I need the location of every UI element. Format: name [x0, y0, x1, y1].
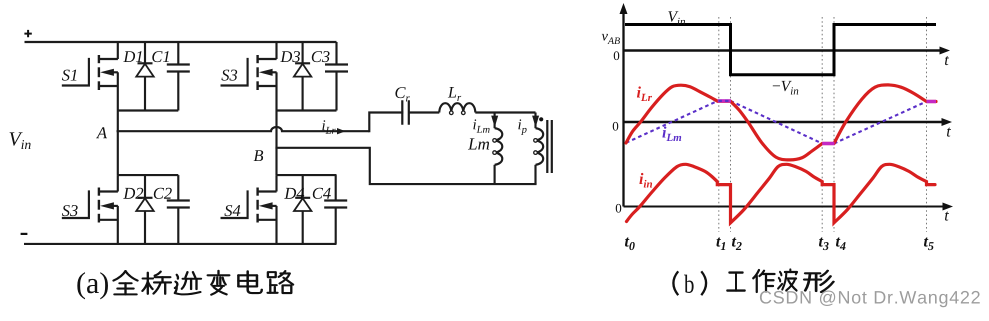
capacitor Cr	[402, 100, 409, 124]
caption (b) fullwidth left paren	[673, 271, 678, 295]
caption (a) char ni	[175, 272, 201, 294]
label D4	[284, 188, 304, 199]
wire into transformer primary	[534, 113, 536, 129]
transistor S3 bottom-left channel	[98, 188, 100, 223]
iLm flat segment t3-t4	[822, 142, 834, 145]
guide dashed line t2	[730, 17, 732, 232]
label t5	[924, 237, 934, 250]
bottom rail	[24, 243, 337, 245]
wire into Lm	[494, 113, 496, 129]
caption (b) char xing	[804, 271, 833, 292]
label S3 top	[221, 70, 237, 81]
label D3	[280, 51, 300, 62]
diode D3	[294, 42, 311, 111]
label C1	[152, 51, 169, 62]
label C4	[313, 188, 331, 199]
zero label axis3	[616, 204, 622, 213]
label ip	[518, 119, 526, 135]
dash overlay t1-t2	[719, 100, 731, 102]
label Lr	[448, 87, 461, 101]
label iLm	[662, 126, 681, 141]
caption (b) fullwidth right paren	[701, 271, 706, 295]
t label axis3	[945, 211, 949, 220]
minus Vin wave label	[773, 81, 799, 95]
node line bottom-left cell	[118, 174, 179, 176]
vertical axis	[620, 3, 628, 207]
iin wave	[627, 164, 936, 223]
iLm flat segment after t5	[927, 100, 937, 103]
node B label	[254, 150, 264, 161]
guide dashed line t1	[718, 17, 720, 232]
caption (a) char qiao	[142, 272, 171, 294]
transistor S1 drain stub	[99, 58, 118, 60]
caption (b) letter b	[684, 275, 694, 293]
node B wire	[277, 148, 536, 184]
diode D4	[294, 175, 311, 244]
transistor S1 source stub	[99, 85, 118, 87]
label Cr	[395, 87, 409, 101]
node A wire	[117, 127, 370, 131]
vAB square wave	[625, 25, 936, 75]
label iLm	[473, 119, 489, 132]
label S3 bottom	[62, 205, 78, 216]
Vin label	[10, 132, 31, 149]
top rail	[25, 41, 337, 43]
polarity dot	[539, 117, 543, 121]
wire node B down to S4 cell	[275, 148, 277, 175]
caption (a) char quan	[114, 271, 138, 294]
iLm flat segment t1-t2	[718, 99, 731, 102]
transistor S4 source stub	[258, 219, 277, 221]
transistor S3 top-right arrow stub	[259, 69, 277, 76]
watermark	[760, 290, 980, 307]
Vin wave label	[668, 11, 685, 25]
zero label axis1	[614, 51, 620, 60]
node A label	[96, 127, 107, 138]
transistor S1 channel	[98, 55, 100, 90]
transistor S3 top-right drain stub	[258, 58, 277, 60]
wire node A up to resonant branch	[369, 113, 402, 132]
wire primary to bottom	[534, 165, 536, 184]
diode D1	[136, 42, 153, 111]
capacitor C1	[167, 42, 190, 111]
label Lm	[468, 138, 489, 149]
label D1	[123, 51, 142, 62]
guide dashed line t5	[926, 17, 928, 232]
wire Cr to Lr	[409, 111, 439, 113]
label t2	[732, 237, 742, 250]
wire S4 drain to cell node	[275, 175, 277, 191]
diode D2	[136, 175, 153, 244]
current iLr label and arrow	[322, 120, 345, 134]
node line top-right cell	[277, 109, 337, 111]
caption (a) char bian	[208, 271, 230, 295]
minus terminal	[21, 233, 28, 235]
transistor S4 arrow stub	[259, 202, 277, 209]
capacitor C2	[167, 175, 190, 244]
transistor S4 drain stub	[258, 190, 277, 192]
label iin	[639, 173, 652, 188]
wire top-left cell to node A	[117, 111, 119, 132]
label iLr	[637, 86, 652, 101]
caption (b) char zuo	[753, 270, 774, 292]
time axis 3	[624, 203, 954, 211]
transistor S3 top-right channel	[256, 55, 258, 90]
guide dashed line t3	[821, 17, 823, 232]
t label axis2	[947, 127, 951, 136]
wire S3b drain to rail	[275, 42, 277, 59]
transistor S3 top-right source stub	[258, 85, 277, 87]
transistor S4 channel	[256, 188, 258, 223]
ip arrow	[532, 116, 539, 128]
wire S3b source to cell node	[275, 72, 277, 110]
inductor Lr	[439, 103, 475, 114]
transformer primary winding	[534, 128, 543, 165]
transistor S1 arrow stub	[100, 69, 118, 76]
transistor S1 gate	[63, 59, 89, 86]
zero label axis2	[613, 122, 619, 131]
plus terminal	[24, 30, 31, 37]
wire S1 drain to rail	[117, 42, 119, 59]
t label axis1	[945, 56, 949, 65]
iLm arrow	[491, 116, 498, 128]
label D2	[123, 188, 143, 199]
transistor S3 top-right gate	[222, 59, 248, 86]
transistor S3 bottom-left arrow stub	[100, 202, 118, 209]
label t0	[625, 237, 635, 250]
iLr sine wave	[626, 85, 936, 160]
label C2	[154, 188, 172, 199]
label t4	[836, 237, 846, 250]
time axis 1	[624, 47, 951, 55]
transistor S4 gate	[222, 192, 248, 219]
wire S3 source to bottom rail	[117, 206, 119, 244]
wire S4 source to bottom rail	[275, 206, 277, 244]
caption (a) latin part	[77, 272, 108, 299]
node line top-left cell	[118, 109, 179, 111]
wire Lm to bottom	[494, 165, 496, 184]
label S4	[224, 205, 240, 216]
capacitor C3	[325, 42, 348, 111]
guide dashed line t4	[833, 17, 835, 232]
label S1	[62, 70, 77, 81]
caption (a) char lu	[268, 271, 294, 293]
iLm triangular wave dashed	[626, 101, 927, 144]
wire S1 source to cell node	[117, 72, 119, 110]
caption (a) char dian	[238, 271, 261, 293]
transformer core	[547, 120, 552, 173]
label t1	[716, 237, 725, 250]
label C3	[312, 51, 330, 62]
inductor Lm	[493, 128, 502, 165]
transistor S3 bottom-left drain stub	[99, 190, 118, 192]
transistor S3 bottom-left gate	[63, 192, 89, 219]
vAB axis label	[602, 34, 620, 44]
caption (b) char gong	[727, 273, 745, 291]
wire S3 drain to cell node	[117, 175, 119, 191]
caption (b) char bo	[778, 270, 797, 291]
capacitor C4	[324, 175, 347, 244]
transistor S3 bottom-left source stub	[99, 219, 118, 221]
label t3	[819, 237, 829, 250]
wire top-right cell down to node B	[275, 111, 277, 148]
node line bottom-right cell	[277, 174, 337, 176]
wire Lr to transformer	[475, 111, 535, 113]
wire node A down to S3 cell	[117, 131, 119, 175]
time axis 2	[624, 118, 953, 126]
